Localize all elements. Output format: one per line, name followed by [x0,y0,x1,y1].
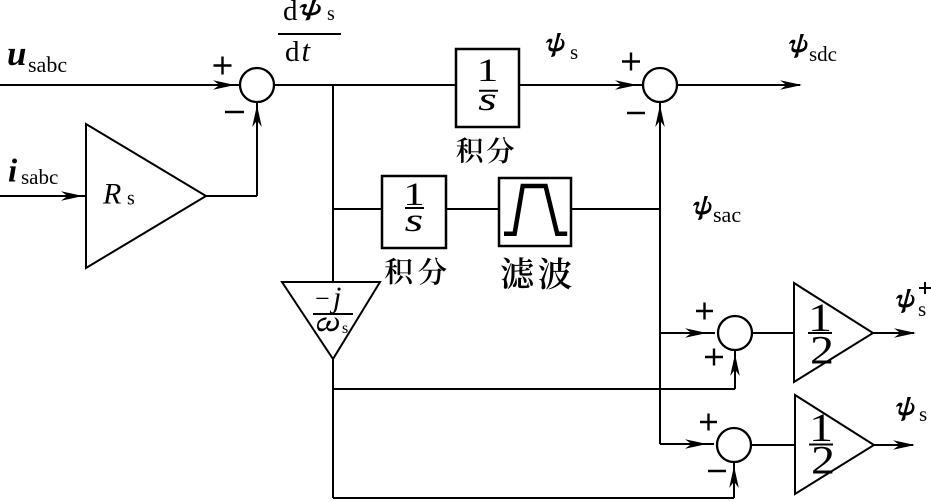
label dpsi_s numerator [283,0,335,27]
svg-text:s: s [918,297,926,321]
integrator block B2 (1/s) [382,176,446,248]
svg-text:s: s [327,3,335,25]
svg-text:sabc: sabc [21,165,58,189]
svg-text:s: s [919,402,927,426]
wire: corner to S4 with arrow [660,439,714,449]
wire: vertical feedback line down from filter node [659,209,661,444]
label psi_s (bottom) [896,397,927,426]
wire: A4 output arrow [874,440,915,450]
label i_sabc [8,154,58,190]
wire: branch to S3 with arrow [660,328,715,338]
label -j/ws fraction [313,281,353,337]
svg-text:sabc: sabc [28,52,67,77]
label psi_sdc [789,34,837,66]
label 波 (filter caption) [539,257,572,289]
svg-text:s: s [405,201,424,238]
svg-text:i: i [8,154,18,190]
label R_s inside triangle [102,178,135,211]
plus sign below S3 [705,349,723,366]
svg-text:s: s [570,40,578,64]
wire: vertical branch from node x=333 down to -j/ws triangle [332,85,334,282]
svg-text:d: d [283,0,298,27]
svg-text:−: − [315,284,330,313]
wire: bottom rail y=498 to under S4 then up with arrow [333,463,739,498]
label 积 (B1 caption) [457,137,483,163]
label dt denominator [285,33,312,68]
label 分 (B1 caption) [487,137,514,163]
wire: i_sabc input line with arrow [0,191,85,201]
svg-text:t: t [302,33,312,68]
wire: filter output to vertical feedback line [571,208,660,210]
svg-text:d: d [285,36,300,68]
svg-text:s: s [127,188,135,210]
wire: S1 output to integrator B1 [274,84,456,86]
integrator block B1 (1/s) [456,49,519,127]
label dpsi_s/dt fraction bar [278,33,341,35]
gain block A3 (1/2 triangle) [794,283,873,382]
label psi_s^+ [896,282,931,321]
wire: A3 output arrow [873,328,916,338]
summing junction S1 [240,68,274,102]
wire: S2 output to psi_sdc with arrow [677,80,802,90]
plus sign at S2 [622,53,640,71]
plus sign at S4 [700,414,717,431]
label 积 (B2 caption) [385,258,412,285]
wire: S4 to gain A4 [751,444,795,446]
wire: B1 to summing junction S2 with arrow [519,80,642,90]
label 分 (B2 caption) [419,257,447,284]
gain block -j/ws (inverted triangle) [282,282,380,359]
wire: rail y=389 to under S3 then up with arrow [333,351,740,389]
svg-text:sdc: sdc [809,42,837,66]
plus sign at S1 [214,57,232,75]
minus sign at S1 [225,111,244,113]
wire: S3 to gain A3 [752,332,794,334]
gain block Rs (triangle) [86,124,206,268]
svg-text:2: 2 [811,438,835,482]
minus sign at S4 [708,470,726,472]
wire: Rs output to S1 bottom with up arrow [206,103,262,196]
label psi_sac [693,196,741,227]
wire: u_sabc input line with arrow [0,80,239,90]
svg-text:s: s [342,320,348,337]
label 滤 (filter caption) [501,257,533,289]
label psi_s [546,33,578,64]
minus sign at S2 [627,112,645,114]
gain block A4 (1/2 triangle) [795,395,874,494]
wire: triangle apex down to bottom rail [332,359,334,498]
svg-text:s: s [478,80,497,117]
plus sign above S3 [696,303,713,320]
svg-text:R: R [102,178,121,211]
wire: B2 to filter block [446,208,499,210]
svg-text:u: u [7,34,26,73]
svg-text:sac: sac [713,202,741,227]
label u_sabc [7,34,67,77]
svg-text:2: 2 [810,328,834,372]
filter block F with bandpass symbol [499,178,571,246]
wire: vertical line up into S2 bottom with arrow [655,103,665,209]
summing junction S4 [717,428,751,462]
wire: middle row from branch node to integrator B2 [333,208,382,210]
summing junction S3 [718,316,752,350]
summing junction S2 [643,68,677,102]
